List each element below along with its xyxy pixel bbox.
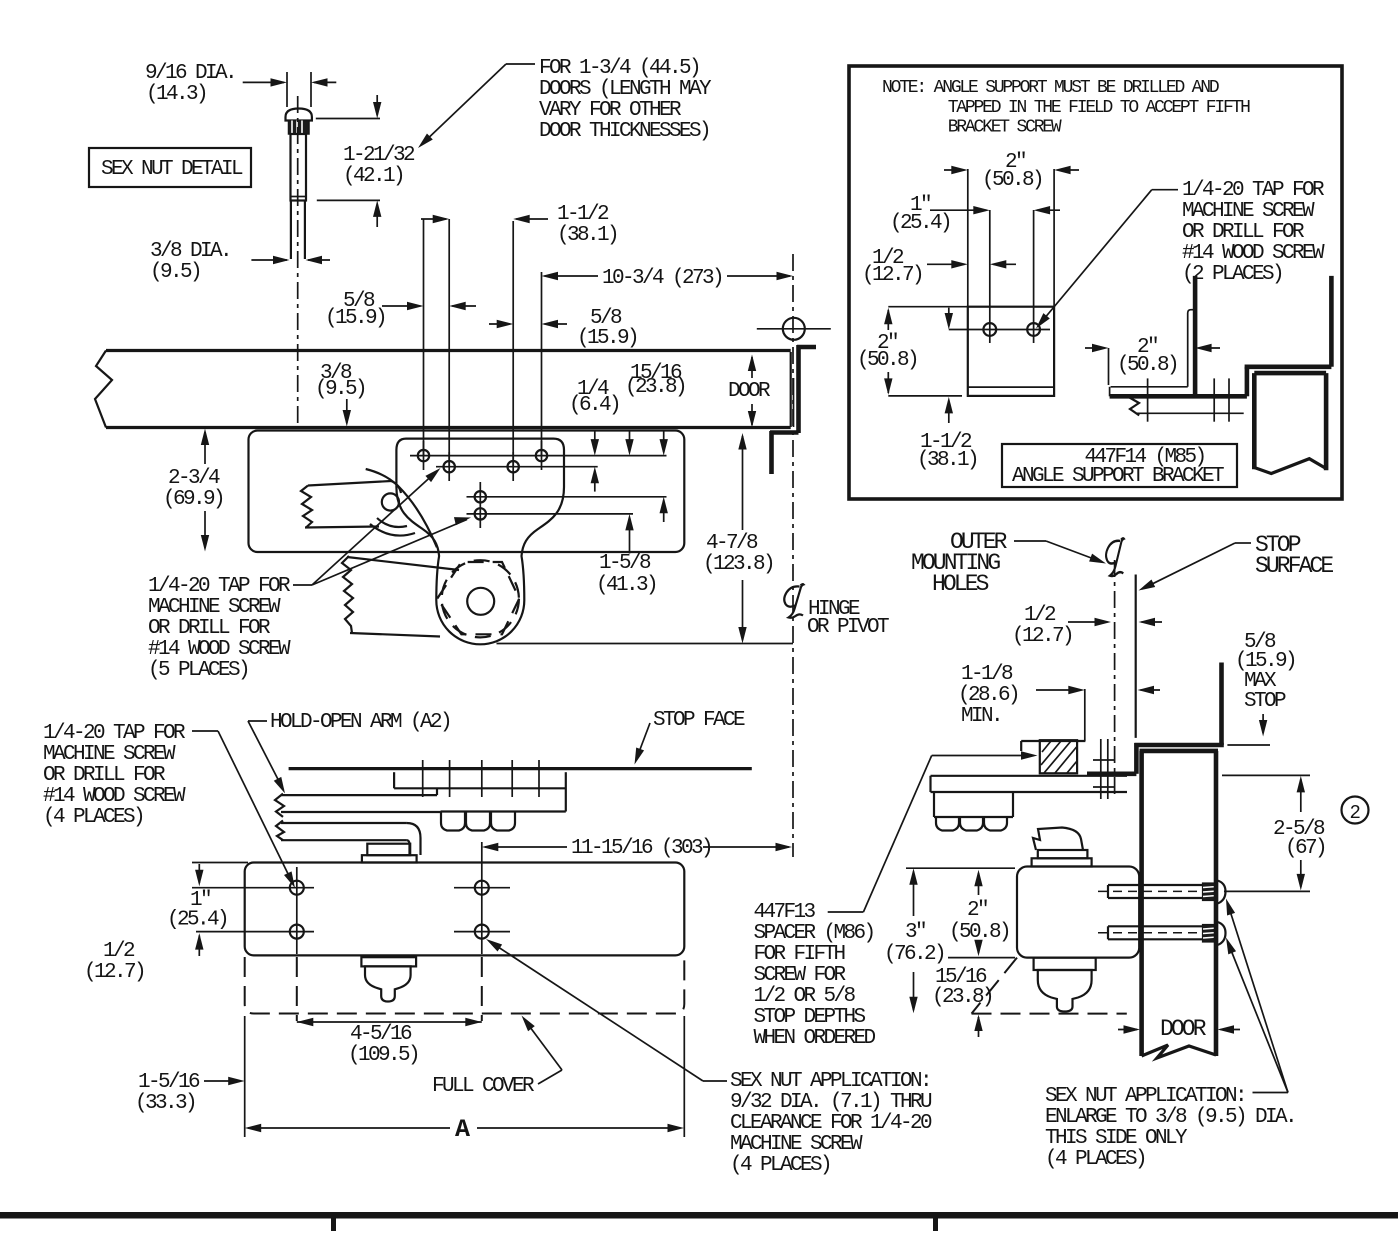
A dimension <box>244 1016 246 1137</box>
screw cap dome <box>286 109 312 121</box>
dashed cover outline <box>245 957 685 1014</box>
svg-text:DOOR: DOOR <box>1160 1016 1207 1042</box>
centerline symbol <box>1106 538 1124 576</box>
circle symbol at hinge centerline <box>783 318 805 340</box>
arm swing arc <box>366 469 437 547</box>
frame line below <box>1136 412 1244 414</box>
header bar top edge <box>106 349 791 352</box>
header bar left break <box>95 351 112 428</box>
svg-text:(15.9): (15.9) <box>577 327 637 350</box>
svg-text:#14 WOOD SCREW: #14 WOOD SCREW <box>43 785 186 808</box>
svg-text:FOR FIFTH: FOR FIFTH <box>754 943 845 966</box>
svg-text:2-3/4: 2-3/4 <box>168 467 220 490</box>
dashed cover right view <box>972 958 1018 1014</box>
SECTION: bottom border <box>0 1212 1398 1231</box>
plate hole bottom-right <box>475 925 489 939</box>
screw barrel <box>291 134 307 201</box>
svg-text:(23.8): (23.8) <box>932 986 992 1009</box>
extension lines cap width <box>286 72 288 107</box>
extension lines up <box>967 169 969 307</box>
svg-text:A: A <box>455 1115 470 1144</box>
svg-text:HOLD-OPEN ARM (A2): HOLD-OPEN ARM (A2) <box>270 711 450 734</box>
hole row lines <box>410 455 667 457</box>
svg-text:(42.1): (42.1) <box>343 165 403 188</box>
svg-text:(33.3): (33.3) <box>135 1092 195 1115</box>
svg-text:2: 2 <box>1350 802 1361 824</box>
svg-text:1/4-20 TAP FOR: 1/4-20 TAP FOR <box>148 575 291 598</box>
svg-text:(25.4): (25.4) <box>167 909 227 932</box>
stop surface line <box>1135 575 1137 738</box>
svg-text:(76.2): (76.2) <box>884 943 944 966</box>
screw hole 3 <box>508 461 519 472</box>
SECTION: inset box top-right <box>849 66 1342 499</box>
svg-text:1-5/8: 1-5/8 <box>599 552 651 575</box>
plate hole top-left <box>290 881 304 895</box>
svg-text:(6.4): (6.4) <box>569 394 619 417</box>
mounting plate outline <box>249 431 685 553</box>
svg-text:DOORS (LENGTH MAY: DOORS (LENGTH MAY <box>539 78 712 101</box>
svg-text:(9.5): (9.5) <box>150 261 200 284</box>
dimension 3/8 arrows <box>251 259 287 261</box>
svg-text:MACHINE SCREW: MACHINE SCREW <box>1182 200 1315 223</box>
svg-text:MACHINE SCREW: MACHINE SCREW <box>730 1133 863 1156</box>
angle bracket side view vertical leg thin <box>1188 310 1195 387</box>
arm shoe <box>933 792 935 817</box>
svg-text:(38.1): (38.1) <box>917 449 977 472</box>
lower step horizontal (thick) <box>770 430 799 435</box>
arm end arc <box>391 481 401 493</box>
svg-text:(50.8): (50.8) <box>982 169 1042 192</box>
frame corner: tall stop vertical <box>1329 276 1334 367</box>
svg-text:OR DRILL FOR: OR DRILL FOR <box>43 764 166 787</box>
svg-text:(4 PLACES): (4 PLACES) <box>730 1154 830 1177</box>
svg-text:(38.1): (38.1) <box>557 224 617 247</box>
upper arm band <box>275 794 284 817</box>
sex bolt 1 <box>1108 884 1203 886</box>
horizontal leg thick <box>1110 394 1247 399</box>
SECTION: door header bar (top view) <box>95 318 831 474</box>
frame soffit thick <box>1134 743 1223 748</box>
center hole lower <box>475 508 486 519</box>
svg-text:SURFACE: SURFACE <box>1255 553 1333 579</box>
SECTION: main top view - mounting plate and closer body <box>148 254 889 857</box>
cam blob <box>1033 828 1083 851</box>
frame step vertical <box>1134 743 1139 774</box>
svg-text:DOOR: DOOR <box>728 380 771 403</box>
svg-text:(109.5): (109.5) <box>348 1044 418 1067</box>
dimension 9/16 arrows <box>243 81 284 83</box>
svg-text:(25.4): (25.4) <box>890 212 950 235</box>
svg-text:1/4-20 TAP FOR: 1/4-20 TAP FOR <box>1182 179 1325 202</box>
sex bolt 2 <box>1108 925 1203 927</box>
frame corner horizontal <box>1245 364 1332 369</box>
svg-text:2″: 2″ <box>967 899 987 922</box>
screw hole 2 <box>444 461 455 472</box>
extension line holes col2 <box>448 219 450 466</box>
down arrows from bar <box>594 430 596 453</box>
small down arrow to hole line <box>948 308 950 326</box>
vertical leg thick <box>1193 276 1198 396</box>
centerline symbol <box>784 584 803 618</box>
svg-text:HOLES: HOLES <box>932 571 989 597</box>
svg-text:SCREW FOR: SCREW FOR <box>754 964 847 987</box>
svg-text:(23.8): (23.8) <box>625 376 685 399</box>
spindle lower stack right view <box>1034 958 1096 970</box>
screw hole 4 <box>536 450 547 461</box>
svg-text:3″: 3″ <box>905 921 925 944</box>
svg-text:STOP: STOP <box>1244 690 1286 713</box>
svg-text:ANGLE SUPPORT BRACKET: ANGLE SUPPORT BRACKET <box>1012 465 1224 488</box>
label box 447F14 <box>1002 444 1237 487</box>
svg-text:(12.7): (12.7) <box>1012 625 1072 648</box>
spacer hatched <box>1040 740 1077 773</box>
svg-text:1/4-20 TAP FOR: 1/4-20 TAP FOR <box>43 722 186 745</box>
extension line holes col4 <box>541 272 543 455</box>
screw knurled neck <box>289 121 310 135</box>
door break zigzag <box>1142 1045 1216 1058</box>
svg-text:#14 WOOD SCREW: #14 WOOD SCREW <box>1182 242 1325 265</box>
closer body T-shape <box>396 439 564 645</box>
svg-text:(69.9): (69.9) <box>163 488 223 511</box>
svg-text:TAPPED IN THE FIELD TO ACCEPT: TAPPED IN THE FIELD TO ACCEPT FIFTH <box>948 98 1250 118</box>
header bar right edge <box>790 352 792 427</box>
door break zigzag <box>1254 459 1326 474</box>
svg-text:CLEARANCE FOR 1/4-20: CLEARANCE FOR 1/4-20 <box>730 1112 932 1135</box>
svg-text:1-1/8: 1-1/8 <box>961 663 1013 686</box>
lower reference line <box>497 643 794 645</box>
lower arm band <box>342 556 353 633</box>
svg-text:STOP DEPTHS: STOP DEPTHS <box>754 1006 866 1029</box>
pinion circle <box>467 588 494 615</box>
up arrow row B <box>594 471 596 492</box>
svg-text:SPACER (M86): SPACER (M86) <box>754 922 874 945</box>
frame wall line <box>1087 771 1136 776</box>
bracket front plate <box>968 307 1054 396</box>
svg-text:(28.6): (28.6) <box>958 684 1018 707</box>
svg-text:OR DRILL FOR: OR DRILL FOR <box>1182 221 1305 244</box>
svg-text:1/2: 1/2 <box>103 940 135 963</box>
svg-text:(123.8): (123.8) <box>703 553 773 576</box>
extension line holes col3 <box>512 221 514 466</box>
spindle cap <box>367 844 410 856</box>
svg-text:4-7/8: 4-7/8 <box>706 532 758 555</box>
svg-text:SEX NUT DETAIL: SEX NUT DETAIL <box>101 158 243 181</box>
screw lower shaft <box>290 201 292 260</box>
svg-text:9/32 DIA. (7.1) THRU: 9/32 DIA. (7.1) THRU <box>730 1091 932 1114</box>
center hole upper <box>475 491 486 502</box>
frame corner step vertical <box>1245 367 1250 397</box>
stop stub (thick) <box>797 345 816 350</box>
upper arm band <box>301 486 312 528</box>
svg-text:(67): (67) <box>1285 837 1325 860</box>
svg-text:BRACKET SCREW: BRACKET SCREW <box>948 118 1062 138</box>
hole line <box>949 329 1050 331</box>
leader to hole 2 <box>1039 190 1152 326</box>
svg-text:(50.8): (50.8) <box>857 349 917 372</box>
circled 2 <box>1342 797 1369 824</box>
plate hole bottom-left <box>290 925 304 939</box>
neck rects <box>1038 850 1088 858</box>
title block divider tick 1 <box>331 1219 336 1232</box>
shoe bolt heads <box>936 817 959 831</box>
leader <box>506 63 535 65</box>
bracket hole 2 <box>1027 323 1040 336</box>
svg-text:(50.8): (50.8) <box>1117 354 1177 377</box>
svg-text:#14 WOOD SCREW: #14 WOOD SCREW <box>148 638 291 661</box>
bolt heads <box>441 812 465 831</box>
svg-text:WHEN ORDERED: WHEN ORDERED <box>754 1027 876 1050</box>
3/8 leader arrow down <box>346 399 348 423</box>
svg-text:DOOR THICKNESSES): DOOR THICKNESSES) <box>539 120 709 143</box>
svg-text:447F13: 447F13 <box>754 901 816 924</box>
svg-text:10-3/4 (273): 10-3/4 (273) <box>602 267 722 290</box>
svg-text:ENLARGE TO 3/8 (9.5) DIA.: ENLARGE TO 3/8 (9.5) DIA. <box>1045 1106 1295 1129</box>
bracket hole 1 <box>983 323 996 336</box>
svg-text:FOR 1-3/4 (44.5): FOR 1-3/4 (44.5) <box>539 57 699 80</box>
bolt head band <box>441 810 518 812</box>
door gap line <box>793 378 795 427</box>
svg-text:11-15/16 (303): 11-15/16 (303) <box>571 837 711 860</box>
dashed circle in lobe <box>442 560 519 637</box>
svg-text:SEX NUT APPLICATION:: SEX NUT APPLICATION: <box>1045 1085 1245 1108</box>
svg-text:FULL COVER: FULL COVER <box>432 1075 535 1098</box>
closer body <box>1017 867 1139 958</box>
right hole CL <box>481 842 483 954</box>
hinge centerline <box>792 254 794 857</box>
stop face line <box>289 767 752 770</box>
title block divider tick 2 <box>933 1219 938 1232</box>
horizontal leg thin <box>1111 386 1188 388</box>
svg-text:(12.7): (12.7) <box>862 264 922 287</box>
svg-text:(41.3): (41.3) <box>596 574 656 597</box>
screw hole 1 <box>418 450 429 461</box>
svg-text:4-5/16: 4-5/16 <box>350 1023 412 1046</box>
arm elbow <box>407 823 421 855</box>
dashed hexagon in lobe <box>437 562 519 634</box>
svg-text:OR DRILL FOR: OR DRILL FOR <box>148 617 271 640</box>
header bar bottom edge <box>106 426 791 429</box>
screw ticks through track <box>422 760 424 797</box>
svg-text:(5 PLACES): (5 PLACES) <box>148 659 248 682</box>
svg-text:THIS SIDE ONLY: THIS SIDE ONLY <box>1045 1127 1188 1150</box>
svg-text:(14.3): (14.3) <box>146 83 206 106</box>
svg-text:(4 PLACES): (4 PLACES) <box>43 806 143 829</box>
svg-text:MACHINE SCREW: MACHINE SCREW <box>148 596 281 619</box>
svg-text:(4 PLACES): (4 PLACES) <box>1045 1148 1145 1171</box>
left hole CL <box>296 867 298 954</box>
inset border <box>849 66 1342 499</box>
frame stop vertical thick <box>1219 663 1224 746</box>
svg-text:(12.7): (12.7) <box>84 961 144 984</box>
plate hole top-right <box>475 881 489 895</box>
svg-text:VARY FOR OTHER: VARY FOR OTHER <box>539 99 682 122</box>
lower step vertical (thick) <box>769 431 774 474</box>
screw ticks <box>1147 378 1149 421</box>
top plate line under spacer <box>1021 740 1085 742</box>
SECTION: FOR 1-3/4 note <box>415 57 712 151</box>
leader to holes <box>293 584 312 586</box>
screw centerline <box>297 96 299 427</box>
svg-text:OR PIVOT: OR PIVOT <box>807 616 889 639</box>
svg-text:SEX NUT APPLICATION:: SEX NUT APPLICATION: <box>730 1070 930 1093</box>
spindle lower stack <box>361 957 416 966</box>
svg-text:MIN.: MIN. <box>961 705 1001 728</box>
hole row extension lines <box>192 862 248 864</box>
svg-text:NOTE: ANGLE SUPPORT MUST BE DR: NOTE: ANGLE SUPPORT MUST BE DRILLED AND <box>882 78 1219 98</box>
mounting plate side view <box>245 863 685 956</box>
svg-text:(15.9): (15.9) <box>325 307 385 330</box>
svg-text:1/2 OR 5/8: 1/2 OR 5/8 <box>754 985 856 1008</box>
slide track channel <box>393 772 395 788</box>
door right view <box>1139 751 1144 1056</box>
svg-text:(9.5): (9.5) <box>315 378 365 401</box>
screw lines through frame <box>1100 739 1102 799</box>
door thickness arrows <box>751 357 753 378</box>
lower arm band <box>276 821 284 841</box>
SECTION: bottom-left side view <box>43 709 932 1177</box>
cam arcs <box>377 518 407 527</box>
SECTION: bottom-right side view <box>754 529 1369 1171</box>
title block top rule <box>0 1212 1398 1219</box>
arm band <box>931 775 1128 777</box>
door section rectangle <box>1254 371 1326 376</box>
svg-text:1/2: 1/2 <box>1024 604 1056 627</box>
svg-text:1-1/2: 1-1/2 <box>557 203 609 226</box>
svg-text:1-21/32: 1-21/32 <box>343 144 415 167</box>
arm pivot circle <box>382 493 399 510</box>
label box SEX NUT DETAIL <box>89 148 251 187</box>
up arrow row C <box>663 501 665 523</box>
SECTION: sex nut detail (top-left) <box>89 62 415 427</box>
svg-text:3/8 DIA.: 3/8 DIA. <box>150 240 230 263</box>
extension line holes col1 <box>423 219 425 455</box>
svg-text:MACHINE SCREW: MACHINE SCREW <box>43 743 176 766</box>
up arrow row D (1-5/8) <box>629 518 631 554</box>
stop vertical (thick) <box>796 345 801 433</box>
svg-text:1-5/16: 1-5/16 <box>138 1071 200 1094</box>
zigzag break <box>1129 397 1140 415</box>
SECTION: top dimensions above bar <box>325 203 793 466</box>
svg-text:9/16 DIA.: 9/16 DIA. <box>145 62 235 85</box>
centerline <box>1114 560 1116 796</box>
svg-text:STOP FACE: STOP FACE <box>653 709 745 732</box>
